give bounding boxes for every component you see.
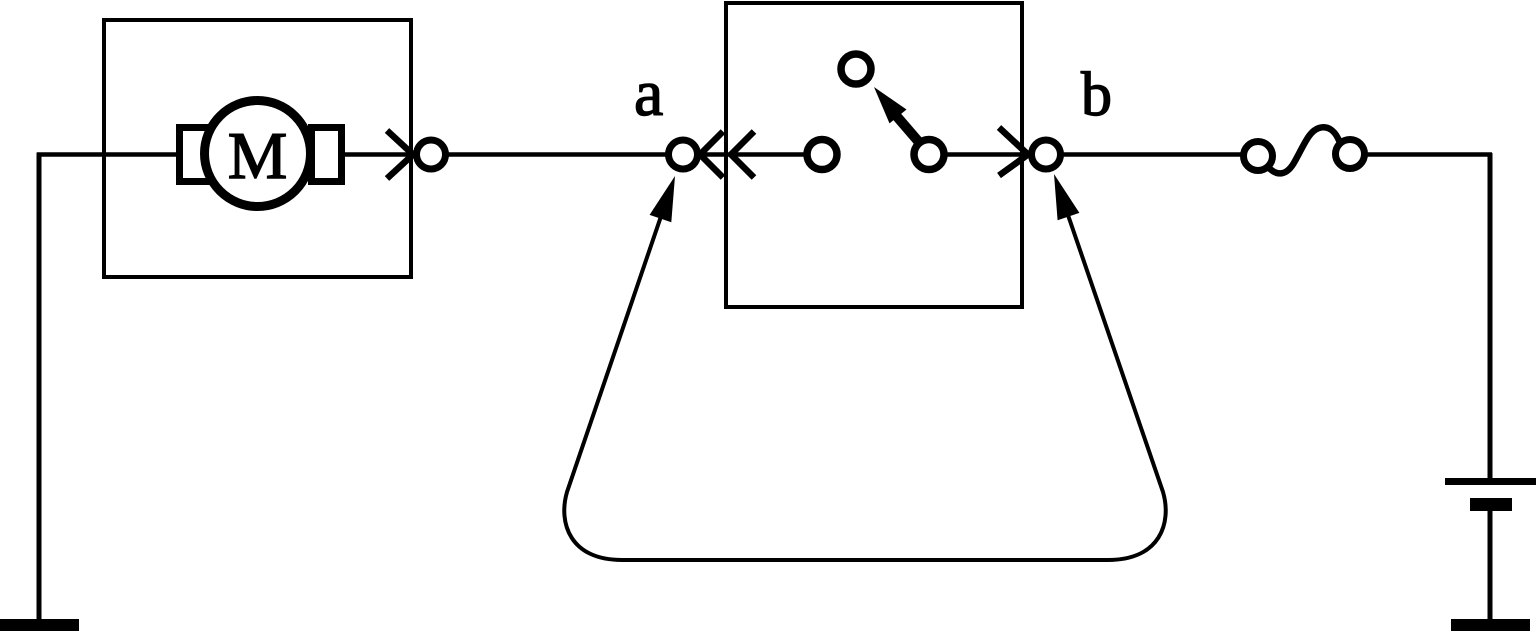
connector circle at motor output	[417, 140, 446, 169]
wire: right contact to fuse	[929, 152, 1246, 157]
node a circle	[669, 140, 698, 169]
ground bar bottom-left	[0, 619, 79, 631]
chevron at node b	[999, 128, 1028, 176]
motor enclosure box	[104, 20, 411, 277]
chevron at motor output	[387, 131, 413, 179]
switch S1 throw upper circle	[841, 54, 871, 84]
battery BT1 positive long plate	[1445, 478, 1536, 485]
fuse F1 left terminal circle	[1244, 142, 1273, 171]
wire: left vertical drop	[37, 153, 42, 623]
switch box	[726, 3, 1022, 307]
double chevron at node a	[700, 132, 754, 178]
svg-text:M: M	[228, 119, 288, 193]
wire: battery to bottom bar	[1488, 511, 1493, 622]
arrowhead pointing to node a	[650, 176, 675, 222]
fuse F1 right terminal circle	[1336, 140, 1365, 169]
fuse F1 element squiggle	[1267, 127, 1340, 173]
wire: top-left horizontal into motor	[37, 152, 178, 157]
switch S1 blade arrow	[874, 87, 918, 141]
loop callout path	[564, 183, 1165, 560]
wire: fuse to top-right corner	[1362, 152, 1492, 157]
arrowhead pointing to node b	[1054, 174, 1079, 220]
wire: motor to node a	[341, 152, 840, 157]
ground bar bottom-right	[1451, 619, 1530, 631]
motor brush right	[312, 128, 342, 182]
node b circle	[1032, 140, 1061, 169]
battery BT1 negative short plate	[1470, 498, 1512, 511]
switch S1 contact left circle	[807, 140, 837, 170]
motor brush left	[180, 128, 212, 182]
svg-text:b: b	[1081, 61, 1112, 129]
wire: right vertical to battery	[1488, 153, 1493, 480]
switch S1 contact right circle (pin b side)	[914, 140, 944, 170]
motor M body circle	[205, 101, 311, 207]
svg-text:a: a	[634, 57, 663, 130]
